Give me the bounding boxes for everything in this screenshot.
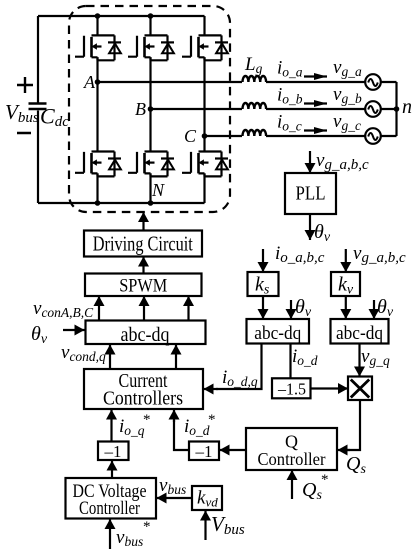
svg-text:θv: θv bbox=[31, 323, 48, 347]
svg-text:io_q: io_q bbox=[119, 416, 145, 438]
svg-text:io_a,b,c: io_a,b,c bbox=[275, 243, 325, 266]
svg-text:vg_a,b,c: vg_a,b,c bbox=[316, 150, 369, 173]
svg-text:*: * bbox=[321, 472, 329, 488]
svg-text:Cdc: Cdc bbox=[40, 104, 69, 131]
svg-text:n: n bbox=[402, 96, 412, 118]
svg-text:B: B bbox=[135, 99, 146, 119]
svg-text:Vbus: Vbus bbox=[211, 512, 245, 538]
svg-text:*: * bbox=[208, 412, 216, 428]
svg-text:vg_a: vg_a bbox=[333, 57, 362, 79]
svg-text:vg_a,b,c: vg_a,b,c bbox=[353, 243, 406, 266]
svg-text:θv: θv bbox=[314, 221, 331, 245]
svg-text:–1: –1 bbox=[195, 442, 213, 461]
svg-text:abc-dq: abc-dq bbox=[336, 323, 383, 344]
svg-text:io_d: io_d bbox=[292, 346, 318, 368]
svg-text:A: A bbox=[83, 72, 96, 92]
svg-text:Driving Circuit: Driving Circuit bbox=[93, 232, 193, 256]
svg-text:θv: θv bbox=[377, 296, 394, 320]
svg-text:vg_c: vg_c bbox=[333, 111, 361, 133]
svg-text:abc-dq: abc-dq bbox=[254, 323, 301, 344]
svg-text:ks: ks bbox=[255, 274, 270, 298]
svg-text:PLL: PLL bbox=[296, 184, 326, 205]
svg-text:io_a: io_a bbox=[277, 58, 303, 80]
svg-text:Qs: Qs bbox=[346, 453, 366, 477]
svg-text:io_b: io_b bbox=[277, 85, 303, 107]
svg-text:θv: θv bbox=[295, 296, 312, 320]
svg-text:io_c: io_c bbox=[277, 112, 302, 134]
svg-text:io_d,q: io_d,q bbox=[222, 367, 258, 389]
svg-text:*: * bbox=[143, 519, 151, 535]
svg-text:SPWM: SPWM bbox=[119, 276, 167, 297]
svg-text:Lg: Lg bbox=[244, 54, 263, 76]
svg-text:Qs: Qs bbox=[302, 479, 322, 503]
svg-text:vcond,q: vcond,q bbox=[61, 342, 106, 364]
svg-text:vg_b: vg_b bbox=[333, 84, 362, 106]
svg-text:vbus: vbus bbox=[116, 527, 143, 549]
svg-text:Controller: Controller bbox=[79, 498, 141, 519]
svg-text:–1: –1 bbox=[104, 442, 122, 461]
svg-text:abc-dq: abc-dq bbox=[121, 324, 170, 346]
svg-text:vconA,B,C: vconA,B,C bbox=[33, 298, 94, 320]
svg-text:kvd: kvd bbox=[197, 488, 218, 510]
svg-text:N: N bbox=[151, 180, 165, 200]
svg-text:Controllers: Controllers bbox=[103, 388, 183, 410]
svg-text:io_d: io_d bbox=[184, 416, 210, 438]
svg-text:Controller: Controller bbox=[258, 449, 326, 469]
svg-text:kv: kv bbox=[338, 274, 354, 298]
svg-text:C: C bbox=[184, 126, 197, 146]
svg-text:*: * bbox=[143, 412, 151, 428]
svg-text:–1.5: –1.5 bbox=[277, 380, 306, 399]
svg-text:vbus: vbus bbox=[159, 475, 186, 497]
svg-text:vg_q: vg_q bbox=[361, 346, 390, 368]
